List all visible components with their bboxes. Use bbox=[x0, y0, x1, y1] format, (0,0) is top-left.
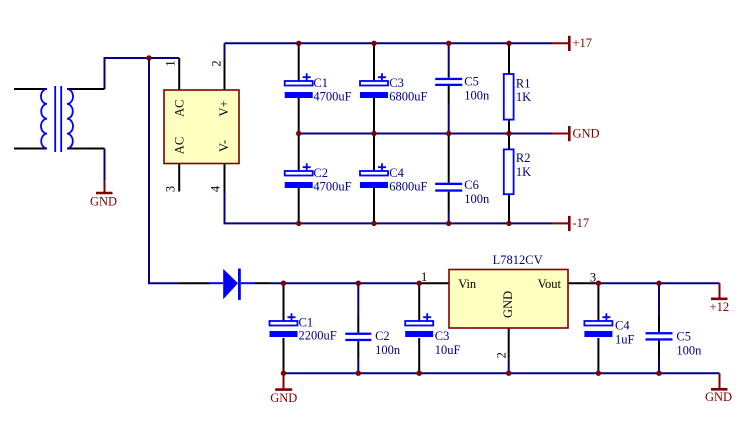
svg-text:1: 1 bbox=[421, 270, 427, 284]
svg-text:Vin: Vin bbox=[458, 277, 477, 291]
svg-text:R1: R1 bbox=[516, 76, 531, 90]
svg-text:C2: C2 bbox=[313, 166, 328, 180]
svg-text:3: 3 bbox=[164, 186, 178, 192]
svg-text:C5: C5 bbox=[464, 75, 479, 89]
svg-text:GND: GND bbox=[705, 390, 732, 404]
svg-text:6800uF: 6800uF bbox=[389, 179, 427, 193]
svg-text:4700uF: 4700uF bbox=[313, 179, 351, 193]
svg-text:AC: AC bbox=[173, 100, 187, 117]
svg-text:100n: 100n bbox=[464, 192, 490, 206]
svg-text:R2: R2 bbox=[516, 151, 531, 165]
svg-text:2: 2 bbox=[209, 60, 223, 66]
svg-text:4: 4 bbox=[208, 185, 222, 192]
svg-text:L7812CV: L7812CV bbox=[493, 253, 543, 267]
svg-text:GND: GND bbox=[573, 126, 600, 140]
svg-text:100n: 100n bbox=[375, 343, 401, 357]
svg-text:-17: -17 bbox=[573, 216, 590, 230]
svg-text:C5: C5 bbox=[676, 330, 691, 344]
svg-text:GND: GND bbox=[501, 291, 515, 318]
svg-text:GND: GND bbox=[90, 195, 117, 209]
svg-text:+17: +17 bbox=[573, 36, 593, 50]
svg-text:C6: C6 bbox=[464, 178, 479, 192]
svg-text:V+: V+ bbox=[217, 100, 231, 116]
svg-text:C3: C3 bbox=[435, 329, 450, 343]
svg-text:C4: C4 bbox=[615, 319, 630, 333]
svg-text:2200uF: 2200uF bbox=[299, 329, 337, 343]
svg-text:10uF: 10uF bbox=[435, 343, 461, 357]
svg-text:C1: C1 bbox=[299, 316, 314, 330]
svg-text:Vout: Vout bbox=[538, 277, 562, 291]
svg-text:2: 2 bbox=[495, 352, 509, 358]
svg-text:+12: +12 bbox=[710, 300, 730, 314]
svg-text:C1: C1 bbox=[313, 76, 328, 90]
svg-text:3: 3 bbox=[590, 271, 596, 285]
svg-text:1K: 1K bbox=[516, 90, 531, 104]
svg-text:AC: AC bbox=[173, 137, 187, 154]
svg-text:C2: C2 bbox=[375, 329, 390, 343]
svg-text:100n: 100n bbox=[464, 88, 490, 102]
svg-text:C3: C3 bbox=[389, 76, 404, 90]
svg-text:1K: 1K bbox=[516, 165, 531, 179]
svg-text:1: 1 bbox=[164, 60, 178, 66]
svg-text:V-: V- bbox=[217, 140, 231, 152]
svg-text:C4: C4 bbox=[389, 166, 404, 180]
svg-text:4700uF: 4700uF bbox=[313, 89, 351, 103]
svg-text:GND: GND bbox=[270, 391, 297, 405]
svg-text:1uF: 1uF bbox=[615, 333, 635, 347]
svg-text:100n: 100n bbox=[676, 344, 702, 358]
svg-text:6800uF: 6800uF bbox=[389, 89, 427, 103]
